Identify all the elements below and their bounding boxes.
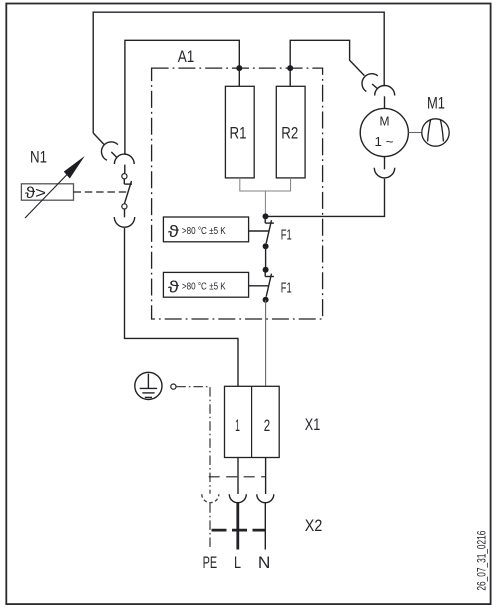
thermal contact F1 upper bbox=[265, 216, 274, 243]
svg-text:L: L bbox=[234, 553, 241, 572]
svg-text:X2: X2 bbox=[305, 517, 323, 535]
junction dot node 3 bbox=[263, 213, 269, 219]
svg-text:1 ~: 1 ~ bbox=[375, 135, 394, 149]
wire between F1 contacts bbox=[265, 246, 267, 269]
connector below switch (socket) bbox=[114, 217, 134, 227]
earth link circle bbox=[171, 384, 176, 389]
thermal sensor box upper bbox=[163, 217, 269, 242]
svg-text:1: 1 bbox=[235, 417, 240, 435]
fan symbol bbox=[408, 119, 449, 146]
wire W1 switch plug to motor plug (top run) bbox=[93, 12, 384, 133]
svg-text:M: M bbox=[380, 115, 390, 129]
connector pole 1 left (socket + pin) bbox=[93, 133, 118, 160]
plug X2 separation line lower (thick dashed) bbox=[212, 529, 266, 532]
wire node 3 to motor bottom loop bbox=[266, 179, 385, 217]
mains wire L (thick) bbox=[236, 503, 239, 550]
svg-text:26_07_31_0216: 26_07_31_0216 bbox=[477, 531, 489, 591]
svg-text:X1: X1 bbox=[305, 416, 321, 434]
socket arc X2 PE (dashed) bbox=[202, 494, 219, 503]
control box A1 boundary (dash-dot) bbox=[152, 68, 323, 319]
svg-text:A1: A1 bbox=[178, 47, 195, 66]
wire R1 R2 bottoms to node 3 (thin) bbox=[240, 178, 291, 217]
connector pole 2 left (socket) bbox=[114, 154, 134, 164]
junction dot node R1 top bbox=[236, 65, 242, 71]
svg-text:F1: F1 bbox=[281, 226, 292, 243]
svg-text:ϑ: ϑ bbox=[168, 223, 179, 241]
junction dot F1 lower bottom bbox=[263, 297, 269, 303]
svg-text:>80 °C ±5 K: >80 °C ±5 K bbox=[182, 226, 226, 237]
thermal contact F1 lower bbox=[265, 270, 274, 297]
protective earth symbol bbox=[135, 372, 162, 399]
svg-text:2: 2 bbox=[264, 417, 270, 435]
socket arc X2 N bbox=[257, 494, 274, 503]
mechanical link N1 to switch (dashed) bbox=[74, 191, 128, 193]
wire switch to X1:1 bbox=[125, 228, 239, 386]
svg-text:PE: PE bbox=[203, 553, 218, 572]
plug X2 separation line upper (dashed) bbox=[209, 476, 266, 478]
mains wire N bbox=[264, 503, 266, 550]
thermostat N1 bbox=[21, 156, 84, 218]
svg-text:R1: R1 bbox=[230, 123, 247, 142]
svg-text:>80 °C ±5 K: >80 °C ±5 K bbox=[182, 281, 226, 292]
resistor R1 bbox=[225, 86, 254, 178]
PE dash-dot wire bbox=[176, 387, 210, 548]
socket arc X2 L bbox=[229, 494, 246, 503]
line switch S1 bbox=[122, 165, 132, 218]
motor M circle bbox=[360, 108, 408, 156]
svg-text:R2: R2 bbox=[281, 123, 298, 142]
wire W2 plug to R1 (upper run) bbox=[125, 40, 239, 154]
motor plug top pole A (socket + pin) bbox=[362, 74, 378, 92]
wire X1:2 to socket N bbox=[265, 458, 267, 495]
wire W3 R2 to motor plug bbox=[290, 40, 364, 86]
motor plug top pole B (socket + stub to motor) bbox=[375, 86, 395, 109]
resistor R2 bbox=[276, 86, 305, 178]
junction dot F1 lower top bbox=[263, 267, 269, 273]
wire X1:1 to socket L bbox=[237, 458, 239, 495]
svg-text:N: N bbox=[258, 553, 271, 572]
terminal block X1 bbox=[225, 386, 280, 457]
svg-text:N1: N1 bbox=[30, 147, 47, 166]
svg-text:M1: M1 bbox=[427, 94, 445, 113]
svg-text:F1: F1 bbox=[281, 280, 292, 297]
svg-text:ϑ: ϑ bbox=[168, 278, 179, 296]
thermal sensor box lower bbox=[163, 272, 269, 297]
wire F1 to terminal X1:2 bbox=[265, 300, 267, 387]
junction dot F1 upper bottom bbox=[263, 243, 269, 249]
junction dot node R2 top bbox=[287, 65, 293, 71]
motor connector bottom (socket + pin) bbox=[374, 157, 394, 178]
